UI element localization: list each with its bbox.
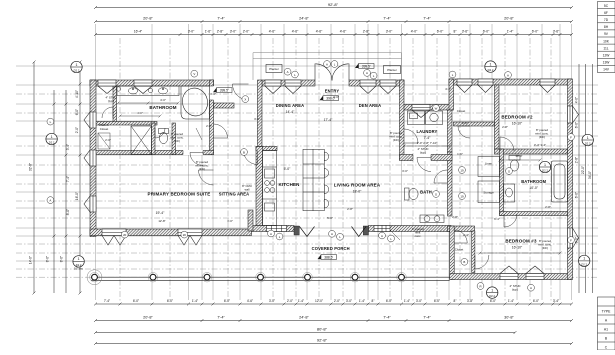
svg-text:7'-4": 7'-4" — [104, 299, 110, 303]
door arc bathroom entry — [190, 153, 203, 166]
leader line tub note — [196, 128, 202, 140]
svg-text:1: 1 — [587, 136, 589, 140]
svg-text:22'-0": 22'-0" — [581, 166, 585, 174]
planter left — [266, 65, 282, 73]
window bottom sitting — [267, 226, 287, 232]
svg-text:Closet: Closet — [100, 127, 109, 131]
svg-text:3'-0": 3'-0" — [227, 219, 233, 223]
window right wall bedroom3 — [568, 228, 579, 248]
svg-text:32'-8": 32'-8" — [29, 163, 33, 171]
window left wall B — [84, 150, 96, 166]
window dining top B — [285, 80, 301, 94]
porch doorway V right — [352, 227, 367, 237]
svg-text:8'-0": 8'-0" — [66, 209, 70, 215]
horizontal dashed centerlines — [16, 94, 598, 277]
svg-text:2'-8": 2'-8" — [502, 125, 508, 129]
svg-text:80'-8": 80'-8" — [317, 327, 328, 332]
svg-text:Closet: Closet — [455, 248, 464, 252]
svg-text:13W: 13W — [603, 61, 611, 65]
svg-text:12W: 12W — [603, 54, 611, 58]
kitchen island — [303, 149, 329, 210]
bath toilet — [405, 188, 419, 200]
svg-text:A: A — [530, 286, 532, 290]
svg-text:A: A — [331, 232, 333, 236]
svg-text:D2.2: D2.2 — [581, 262, 587, 266]
svg-text:D2.2: D2.2 — [585, 141, 591, 145]
svg-text:92'-8": 92'-8" — [328, 2, 339, 7]
svg-text:D2.2: D2.2 — [74, 68, 80, 72]
svg-text:3'-0": 3'-0" — [346, 299, 352, 303]
sitting east jog wall — [248, 210, 253, 231]
svg-text:Planter: Planter — [387, 68, 397, 72]
svg-text:2'-0": 2'-0" — [334, 299, 340, 303]
exterior top wall den — [349, 80, 404, 86]
svg-text:16'-10": 16'-10" — [512, 121, 523, 125]
svg-text:1: 1 — [76, 63, 78, 67]
svg-text:A: A — [507, 73, 509, 77]
svg-text:6'-0": 6'-0" — [575, 192, 579, 198]
svg-text:1'-4": 1'-4" — [298, 299, 304, 303]
svg-text:4'-4": 4'-4" — [445, 87, 451, 91]
interior dim line bedroom3 — [479, 252, 562, 255]
svg-text:A: A — [366, 71, 368, 75]
svg-text:7'-4": 7'-4" — [424, 136, 432, 140]
svg-text:5'-0": 5'-0" — [284, 167, 292, 171]
svg-text:3'-8": 3'-8" — [467, 299, 473, 303]
svg-text:14V: 14V — [603, 68, 610, 72]
entry door leaves and arcs — [315, 64, 349, 81]
door arc bedroom2 — [500, 137, 514, 151]
svg-text:3'-0": 3'-0" — [188, 30, 195, 34]
svg-text:2'-8": 2'-8" — [575, 157, 579, 163]
window bottom bedroom3 B — [526, 266, 544, 280]
porch edge lines — [91, 277, 450, 280]
svg-text:2'-0": 2'-0" — [243, 30, 250, 34]
svg-text:D2.2: D2.2 — [49, 140, 55, 144]
svg-text:388.5': 388.5' — [324, 256, 333, 260]
svg-text:BEDROOM #2: BEDROOM #2 — [501, 114, 533, 119]
exterior left wall — [90, 80, 96, 237]
shower-wc wall — [152, 123, 156, 155]
svg-text:ENTRY: ENTRY — [325, 88, 340, 93]
svg-text:8'-0": 8'-0" — [46, 256, 50, 262]
svg-text:16'-10": 16'-10" — [512, 246, 523, 250]
svg-text:BATHROOM: BATHROOM — [149, 105, 176, 110]
svg-text:Storage: Storage — [483, 191, 494, 195]
right vertical dim lines — [579, 64, 593, 293]
svg-text:F: F — [570, 238, 572, 242]
svg-text:(typ.): (typ.) — [420, 151, 426, 155]
svg-text:R: R — [479, 284, 481, 288]
svg-text:(ICF): (ICF) — [174, 139, 180, 143]
svg-text:2'-8": 2'-8" — [452, 215, 458, 219]
svg-text:7'-4": 7'-4" — [217, 17, 225, 21]
svg-text:6'-0": 6'-0" — [532, 30, 539, 34]
svg-text:16'-0": 16'-0" — [75, 192, 79, 200]
svg-text:20'-8": 20'-8" — [143, 17, 153, 21]
elev tag den — [355, 64, 374, 69]
svg-text:18'-0": 18'-0" — [353, 189, 362, 193]
svg-text:11L: 11L — [603, 46, 608, 50]
svg-text:LIVING ROOM AREA: LIVING ROOM AREA — [334, 182, 381, 187]
porch corner column halo — [87, 270, 102, 285]
svg-text:7'-4": 7'-4" — [383, 17, 391, 21]
window bathroom top A — [98, 80, 116, 94]
bedroom2 west wall — [495, 85, 500, 149]
schedule table bottom right — [598, 297, 615, 350]
svg-text:(ICF): (ICF) — [542, 246, 548, 250]
closet hatch small — [98, 133, 110, 149]
svg-text:10" dia.: 10" dia. — [74, 267, 84, 271]
planter right — [384, 66, 401, 74]
svg-text:2'-0": 2'-0" — [206, 124, 212, 128]
svg-text:A1: A1 — [604, 327, 608, 331]
svg-text:6'-0": 6'-0" — [483, 30, 490, 34]
svg-text:2'-8": 2'-8" — [545, 205, 551, 209]
hall east wall — [448, 152, 453, 216]
svg-text:8H: 8H — [604, 25, 609, 29]
svg-text:24'-8": 24'-8" — [299, 17, 309, 21]
exterior bottom wall primary bedroom — [90, 229, 252, 236]
svg-text:6'-4": 6'-4" — [494, 217, 500, 221]
kitchen north wall — [256, 147, 277, 151]
exterior bottom wall living room — [369, 226, 452, 232]
bath vanity — [420, 215, 444, 223]
bathroom2 toilet — [509, 156, 520, 172]
wc toilet — [159, 129, 169, 144]
exterior top wall laundry notch — [402, 105, 453, 111]
porch doorway post right — [363, 226, 368, 235]
svg-text:DINING AREA: DINING AREA — [276, 103, 305, 108]
svg-text:2'-8": 2'-8" — [363, 30, 370, 34]
svg-text:399.5': 399.5' — [362, 64, 371, 68]
bathroom2 west wall — [500, 149, 504, 216]
svg-text:8": 8" — [454, 299, 457, 303]
svg-text:2'-8": 2'-8" — [347, 207, 353, 211]
elev tag porch — [318, 255, 337, 260]
svg-text:20: 20 — [183, 233, 187, 237]
bathroom east wall — [210, 80, 214, 155]
interior dim line laundry — [403, 145, 452, 148]
den east wall — [400, 80, 405, 160]
top dim line 1 (92-8) — [94, 6, 573, 9]
svg-text:19: 19 — [460, 168, 464, 172]
window bottom living — [374, 226, 390, 232]
svg-text:X: X — [244, 97, 246, 101]
closet south wall right wing — [454, 122, 495, 126]
bathroom east wall vestibule opening — [209, 86, 214, 100]
svg-text:(typ.): (typ.) — [108, 99, 114, 103]
svg-text:5'-0": 5'-0" — [327, 216, 333, 220]
hall storage closet — [478, 181, 500, 203]
svg-text:6'-0": 6'-0" — [575, 122, 579, 128]
window right wall bedroom2 — [568, 106, 579, 123]
door arc bedroom3 closet — [454, 230, 467, 243]
svg-text:3'-4": 3'-4" — [66, 144, 70, 150]
entry portico eave line — [253, 53, 402, 80]
svg-text:4'-6": 4'-6" — [269, 30, 276, 34]
elev tag entry — [320, 96, 339, 101]
svg-text:1'-4": 1'-4" — [404, 299, 410, 303]
bottom dim line 4 (92-8) — [94, 342, 573, 345]
svg-text:4'-6": 4'-6" — [247, 299, 253, 303]
svg-text:7D: 7D — [604, 18, 609, 22]
bathroom2 south wall — [500, 212, 568, 216]
exterior top wall dining — [262, 80, 315, 86]
svg-text:3'-4" 3'-4": 3'-4" 3'-4" — [534, 143, 546, 147]
svg-text:3'-0": 3'-0" — [230, 30, 237, 34]
window left wall C — [84, 196, 96, 212]
svg-text:4'-6": 4'-6" — [316, 30, 323, 34]
svg-text:6'-0": 6'-0" — [490, 299, 496, 303]
top dim line 3 small — [94, 33, 573, 36]
svg-text:16'-4": 16'-4" — [134, 30, 143, 34]
svg-text:4'-0": 4'-0" — [137, 111, 143, 115]
extension line grid vertical dashed centerlines — [120, 38, 551, 302]
door arc closet right wing — [458, 126, 470, 138]
svg-text:4'-10": 4'-10" — [75, 90, 79, 98]
svg-text:3'-0": 3'-0" — [416, 299, 422, 303]
svg-text:2'-8": 2'-8" — [217, 30, 224, 34]
primary sinks counter — [117, 86, 179, 96]
svg-text:BEDROOM #3: BEDROOM #3 — [505, 239, 537, 244]
svg-text:19'-4": 19'-4" — [156, 211, 165, 215]
porch columns — [90, 272, 100, 282]
interior dim line bedroom2 — [499, 159, 542, 162]
bedroom2 wing left wall upper — [449, 79, 454, 110]
door arc wc — [155, 128, 165, 138]
svg-text:4'-6": 4'-6" — [292, 30, 299, 34]
svg-text:(ICF): (ICF) — [393, 138, 399, 142]
svg-text:3'-0": 3'-0" — [333, 95, 339, 99]
shower — [131, 126, 152, 155]
svg-text:A: A — [326, 62, 328, 66]
svg-text:3'-0": 3'-0" — [386, 30, 393, 34]
svg-text:wall: wall — [245, 188, 250, 192]
svg-text:1'-4": 1'-4" — [192, 299, 198, 303]
svg-text:30'-8": 30'-8" — [504, 316, 514, 320]
door arc laundry — [417, 158, 431, 172]
walk-in closet wall — [113, 86, 117, 123]
svg-text:6'-0": 6'-0" — [133, 299, 139, 303]
svg-text:2'-0": 2'-0" — [462, 121, 468, 125]
svg-text:3'-0": 3'-0" — [402, 169, 408, 173]
extension line grid horizontal — [16, 66, 598, 261]
extension line grid vertical — [96, 24, 572, 300]
svg-text:(typ.): (typ.) — [512, 288, 518, 292]
door arc bath — [434, 170, 447, 183]
benchmark survey circles — [71, 61, 82, 72]
svg-text:12'-0": 12'-0" — [315, 299, 323, 303]
svg-text:7'-4": 7'-4" — [66, 176, 70, 182]
svg-text:F: F — [570, 135, 572, 139]
laundry east wall — [448, 110, 453, 152]
svg-text:92'-8": 92'-8" — [317, 338, 328, 343]
kitchen west wall — [256, 147, 263, 226]
svg-text:2'-4": 2'-4" — [463, 233, 469, 237]
svg-text:SITTING AREA: SITTING AREA — [219, 191, 250, 196]
svg-text:3'-6": 3'-6" — [553, 30, 560, 34]
bathroom south wall — [96, 151, 214, 155]
closet-shower wall — [96, 122, 158, 126]
dining west wall — [258, 80, 263, 147]
porch doorway V left — [300, 227, 315, 237]
svg-text:14'-0": 14'-0" — [29, 256, 33, 264]
svg-text:10K: 10K — [603, 39, 610, 43]
door arc bathroom2 — [504, 214, 517, 227]
exterior right wall — [568, 79, 573, 280]
svg-text:W: W — [435, 106, 438, 110]
svg-text:2'-0": 2'-0" — [75, 127, 79, 133]
elev tag vestibule — [213, 88, 232, 93]
svg-text:6'-0": 6'-0" — [224, 299, 230, 303]
laundry-bath wall door opening — [413, 154, 431, 161]
svg-text:1'-4": 1'-4" — [508, 299, 514, 303]
svg-text:TYPE: TYPE — [602, 309, 612, 313]
top dim line 2 — [94, 20, 573, 23]
svg-text:20: 20 — [123, 233, 127, 237]
wc east wall — [172, 123, 176, 155]
kitchen west counter — [263, 151, 277, 226]
svg-text:Linen: Linen — [485, 162, 493, 166]
svg-text:4'-0": 4'-0" — [575, 97, 579, 103]
window laundry top — [412, 105, 430, 118]
svg-text:3'-0": 3'-0" — [210, 92, 216, 96]
door arc dining-sitting — [244, 151, 258, 165]
svg-text:B: B — [243, 150, 245, 154]
svg-text:4'-0": 4'-0" — [160, 98, 166, 102]
svg-text:10'-0": 10'-0" — [515, 154, 522, 158]
bedroom3 wing west wall — [450, 226, 455, 280]
svg-text:2'-0": 2'-0" — [105, 138, 111, 142]
svg-text:7'-4": 7'-4" — [217, 316, 225, 320]
svg-text:7'-4": 7'-4" — [423, 17, 431, 21]
door arc bathroom-sitting — [214, 124, 228, 138]
svg-text:6'-0": 6'-0" — [386, 299, 392, 303]
svg-text:6F: 6F — [604, 11, 608, 15]
window den top A — [360, 80, 376, 94]
svg-text:1'-4": 1'-4" — [507, 30, 514, 34]
door arc vestibule — [233, 84, 249, 100]
hall linen closet — [478, 157, 500, 177]
svg-text:24'-8": 24'-8" — [299, 316, 309, 320]
svg-text:2'-0": 2'-0" — [287, 299, 293, 303]
svg-text:19: 19 — [460, 194, 464, 198]
svg-text:PRIMARY BEDROOM SUITE: PRIMARY BEDROOM SUITE — [148, 191, 211, 196]
bottom dim line small — [94, 303, 573, 306]
svg-text:7'-4": 7'-4" — [383, 316, 391, 320]
svg-text:COVERED PORCH: COVERED PORCH — [312, 246, 350, 251]
window bedroom2 top A — [457, 79, 472, 93]
exterior top wall bedroom2 wing — [449, 79, 572, 85]
svg-text:6'-0": 6'-0" — [575, 237, 579, 243]
svg-text:4'-6": 4'-6" — [340, 30, 347, 34]
door arc walkin closet — [102, 107, 113, 118]
interior dim line bathroom lower — [119, 115, 162, 118]
svg-text:1: 1 — [51, 135, 53, 139]
window dining top A — [265, 80, 281, 94]
svg-text:(ICF): (ICF) — [539, 135, 545, 139]
svg-text:4'-0": 4'-0" — [411, 30, 418, 34]
bottom dim line 3 (80-8) — [94, 331, 517, 334]
exterior bottom wall closet b3 north — [448, 226, 475, 232]
svg-text:8'-0": 8'-0" — [59, 256, 63, 262]
svg-text:3'-0": 3'-0" — [269, 299, 275, 303]
window left wall A — [84, 112, 96, 128]
bottom dim line 2 — [94, 319, 573, 322]
sink accessory circles — [116, 87, 152, 93]
svg-text:399.5': 399.5' — [220, 89, 229, 93]
svg-text:D2.2: D2.2 — [542, 168, 548, 172]
svg-text:Planter: Planter — [269, 67, 279, 71]
svg-text:6'-0": 6'-0" — [437, 30, 444, 34]
window bottom primary A — [102, 229, 126, 245]
washer dryer — [408, 111, 443, 125]
svg-text:A: A — [287, 70, 289, 74]
svg-text:6'-0": 6'-0" — [434, 299, 440, 303]
svg-text:2'-0" 2'-8" 7'-10": 2'-0" 2'-8" 7'-10" — [417, 141, 437, 145]
circled letter tags — [324, 61, 331, 68]
primary bathtub — [179, 85, 210, 119]
svg-text:1: 1 — [583, 257, 585, 261]
svg-text:14'-4": 14'-4" — [286, 110, 295, 114]
svg-text:3'-0": 3'-0" — [254, 117, 260, 121]
svg-text:conc.: conc. — [415, 234, 422, 238]
door arc primary bedroom — [199, 170, 214, 185]
svg-text:(ICF): (ICF) — [199, 167, 205, 171]
svg-text:34'-0": 34'-0" — [588, 171, 592, 179]
svg-text:A: A — [270, 232, 272, 236]
exterior bottom wall sitting-kitchen — [252, 226, 295, 232]
svg-text:B: B — [463, 260, 465, 264]
svg-text:20'-8": 20'-8" — [143, 316, 153, 320]
leader line living note — [390, 230, 400, 240]
svg-text:BATH: BATH — [420, 189, 432, 194]
svg-text:6'-0": 6'-0" — [75, 109, 79, 115]
door arc den-hall — [404, 129, 418, 143]
svg-text:17'-4": 17'-4" — [324, 118, 333, 122]
svg-text:12'-8": 12'-8" — [158, 219, 165, 223]
svg-text:1: 1 — [491, 288, 493, 292]
svg-text:3'-4": 3'-4" — [553, 299, 559, 303]
svg-text:1'-6": 1'-6" — [457, 152, 463, 156]
svg-text:20'-8": 20'-8" — [504, 17, 514, 21]
window bedroom2 top B — [478, 79, 493, 93]
svg-text:1'-6": 1'-6" — [205, 30, 212, 34]
laundry-bath wall — [400, 155, 453, 161]
exterior bottom wall bedroom3 wing — [450, 274, 572, 280]
vestibule closet wall — [214, 103, 235, 108]
bathroom2 tub — [552, 161, 568, 202]
svg-text:1: 1 — [544, 163, 546, 167]
svg-text:V: V — [193, 72, 195, 76]
svg-text:8": 8" — [372, 299, 375, 303]
exterior top wall bathroom wing — [90, 80, 214, 86]
interior dim line bathroom — [117, 102, 180, 105]
svg-text:A: A — [49, 198, 51, 202]
svg-text:1'-4": 1'-4" — [359, 299, 365, 303]
svg-text:D2.2: D2.2 — [489, 294, 495, 298]
window bottom bedroom3 A — [500, 266, 518, 280]
svg-text:DEN AREA: DEN AREA — [359, 103, 381, 108]
window bathroom top B — [134, 80, 152, 94]
svg-text:10'-0": 10'-0" — [529, 186, 538, 190]
door arc bedroom3 — [475, 255, 489, 269]
svg-text:1: 1 — [490, 62, 492, 66]
left vertical dim lines — [33, 61, 82, 295]
schedule table top right — [598, 2, 615, 73]
svg-text:1: 1 — [78, 257, 80, 261]
